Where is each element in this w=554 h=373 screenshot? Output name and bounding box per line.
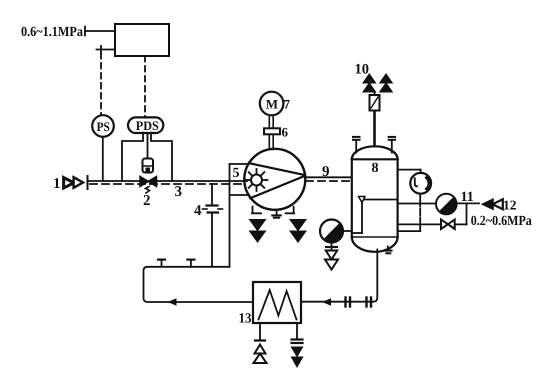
svg-text:3: 3: [175, 184, 183, 200]
svg-text:10: 10: [355, 62, 370, 78]
svg-text:0.2~0.6MPa: 0.2~0.6MPa: [471, 214, 532, 229]
svg-text:1: 1: [53, 176, 61, 192]
svg-text:2: 2: [143, 193, 151, 209]
svg-text:PS: PS: [97, 119, 110, 134]
svg-text:7: 7: [284, 97, 291, 112]
svg-text:M: M: [266, 96, 278, 111]
svg-text:9: 9: [322, 164, 330, 180]
svg-text:6: 6: [282, 125, 289, 140]
svg-text:8: 8: [372, 161, 379, 176]
svg-text:0.6~1.1MPa: 0.6~1.1MPa: [21, 25, 83, 40]
svg-text:5: 5: [233, 166, 240, 181]
svg-text:PDS: PDS: [136, 118, 159, 133]
svg-text:4: 4: [194, 203, 202, 219]
svg-text:13: 13: [239, 312, 252, 327]
svg-text:12: 12: [503, 198, 517, 213]
